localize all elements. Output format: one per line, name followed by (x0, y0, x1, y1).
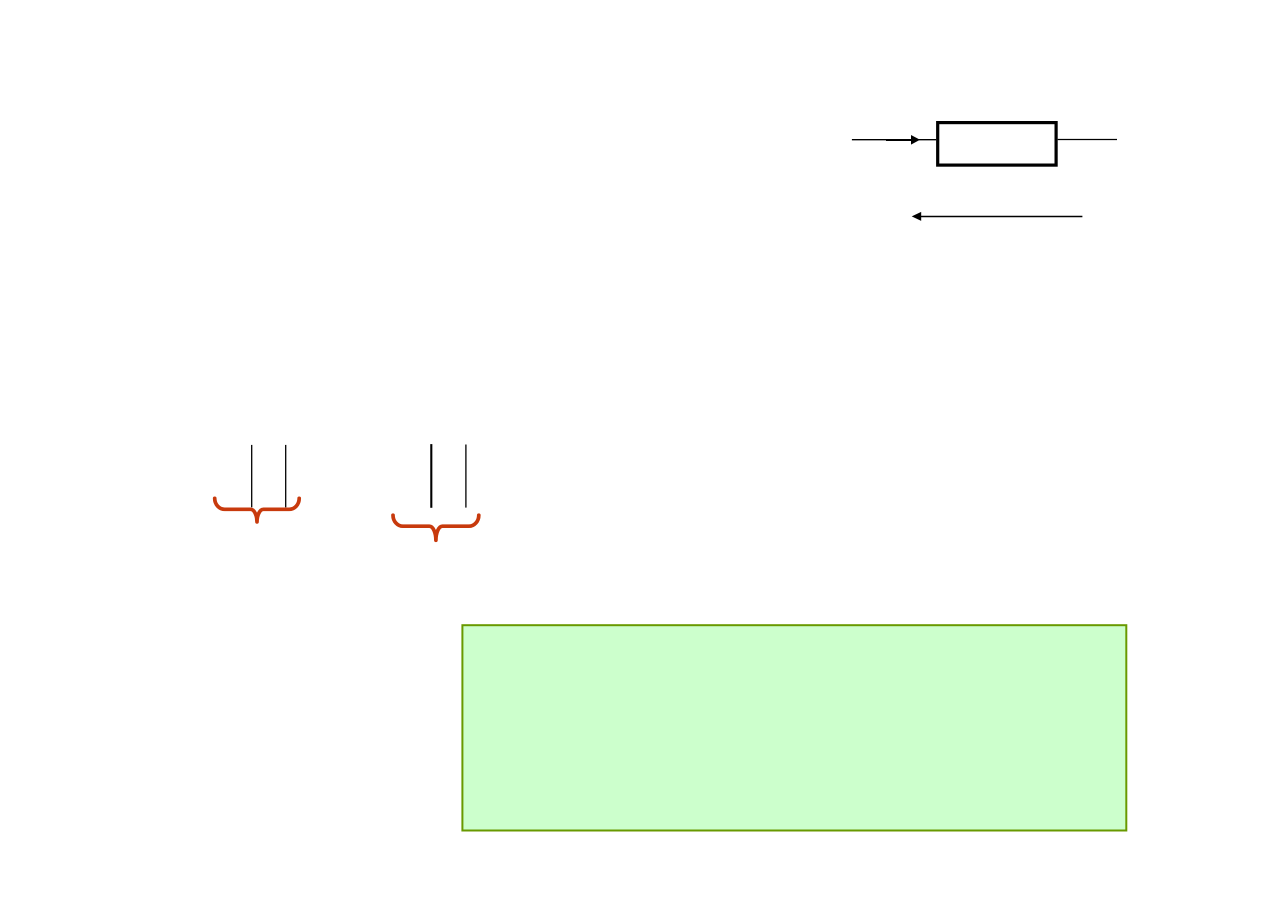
wire (852, 139, 936, 141)
arrow (return current) (912, 212, 1083, 221)
capacitor plate (251, 445, 253, 507)
capacitor plate (285, 445, 287, 507)
capacitor plate (430, 444, 432, 508)
current arrow (886, 135, 920, 145)
capacitor plate (465, 445, 467, 508)
wire (1058, 139, 1117, 141)
underbrace 1 (215, 498, 300, 522)
highlight box (462, 625, 1126, 830)
underbrace 2 (393, 515, 479, 540)
resistor R (938, 123, 1056, 166)
